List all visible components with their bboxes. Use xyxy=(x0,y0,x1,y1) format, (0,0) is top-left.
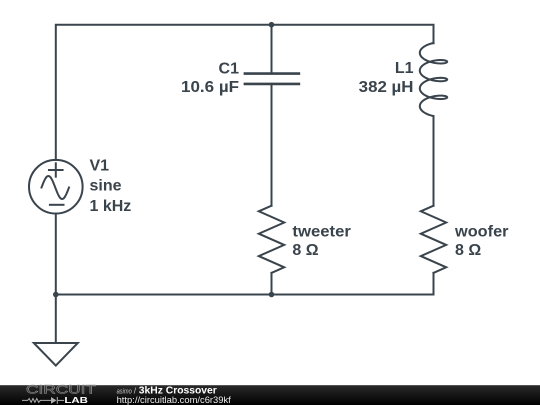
svg-text:tweeter: tweeter xyxy=(292,223,351,240)
svg-text:8 Ω: 8 Ω xyxy=(455,242,481,259)
svg-text:L1: L1 xyxy=(395,60,414,77)
svg-text:C1: C1 xyxy=(219,60,240,77)
svg-text:woofer: woofer xyxy=(454,224,509,241)
svg-text:http://circuitlab.com/c6r39kf: http://circuitlab.com/c6r39kf xyxy=(117,395,232,405)
svg-text:LAB: LAB xyxy=(64,395,88,405)
svg-text:V1: V1 xyxy=(90,158,110,175)
svg-text:1 kHz: 1 kHz xyxy=(90,198,132,215)
svg-text:382 µH: 382 µH xyxy=(359,79,414,96)
svg-text:10.6 µF: 10.6 µF xyxy=(181,79,239,96)
svg-text:8 Ω: 8 Ω xyxy=(292,242,318,259)
svg-text:sine: sine xyxy=(90,178,122,195)
